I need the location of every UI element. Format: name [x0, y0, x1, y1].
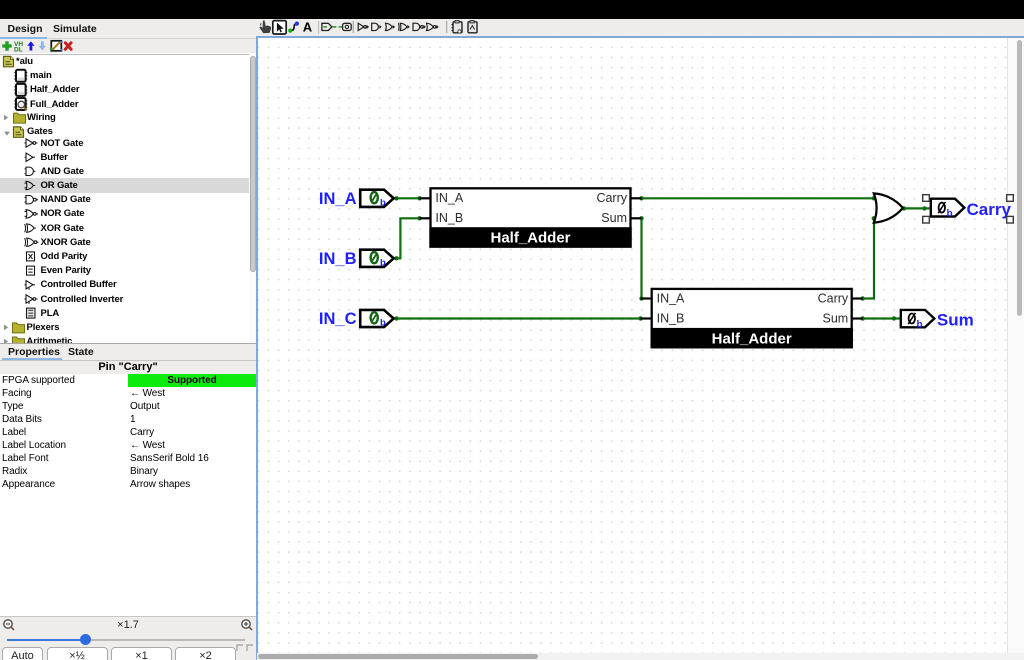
input pin tool — [322, 23, 337, 30]
svg-text:Carry: Carry — [967, 200, 1012, 219]
svg-text:IN_B: IN_B — [435, 211, 463, 225]
wire HA2 Carry up to OR gate input 2 — [863, 218, 874, 298]
wiring tool — [288, 22, 299, 33]
NOT gate tool — [358, 23, 368, 30]
circuit canvas — [258, 38, 1024, 660]
svg-text:IN_A: IN_A — [657, 292, 685, 306]
svg-text:A: A — [303, 20, 313, 35]
add vhdl icon — [468, 21, 477, 33]
svg-text:Sum: Sum — [822, 312, 848, 326]
svg-text:b: b — [380, 258, 386, 269]
label IN_B — [319, 250, 357, 268]
svg-text:Carry: Carry — [818, 292, 849, 306]
wire IN_A to HA1 — [394, 197, 420, 199]
zoom out icon — [2, 618, 16, 632]
label IN_A — [319, 190, 357, 208]
wire OR gate output to pin Carry — [903, 207, 930, 209]
NAND gate tool — [413, 23, 425, 30]
input pin IN_C — [360, 310, 393, 329]
add circuit icon — [452, 21, 463, 34]
svg-text:b: b — [380, 198, 386, 209]
svg-text:b: b — [917, 319, 923, 330]
zoom slider — [7, 639, 245, 641]
OR gate tool — [386, 23, 395, 30]
design tab label — [8, 23, 43, 36]
properties/state tabs row — [0, 343, 256, 361]
wire HA1 Sum down to HA2 IN_A — [641, 218, 642, 298]
wire IN_C to HA2 — [394, 317, 641, 319]
left project toolbar icons — [0, 39, 90, 53]
svg-text:IN_A: IN_A — [435, 191, 463, 205]
svg-text:IN_B: IN_B — [657, 312, 685, 326]
XOR gate tool — [398, 23, 409, 30]
output pin Sum — [901, 310, 935, 331]
NOR gate tool — [427, 23, 438, 30]
toolbar row background — [0, 19, 1024, 36]
circuit svg overlay — [257, 37, 1024, 653]
main canvas toolbar icons (SVG) — [255, 19, 755, 36]
svg-text:b: b — [380, 318, 386, 329]
input pin IN_B — [360, 250, 393, 269]
selected row highlight (OR Gate) — [0, 178, 249, 192]
canvas focus border — [256, 36, 1024, 38]
wire HA2 Sum to pin Sum — [863, 317, 900, 319]
selection handles for pin Carry — [923, 195, 1014, 223]
separator — [318, 21, 320, 34]
svg-text:IN_B: IN_B — [319, 250, 357, 268]
svg-text:DL: DL — [14, 47, 23, 54]
properties header — [0, 360, 256, 375]
explorer tree — [0, 54, 256, 345]
bottom zoom buttons — [0, 647, 256, 660]
zoom chrome — [0, 616, 256, 660]
wire IN_B to HA1 (bend) — [394, 218, 420, 258]
subcircuit Half_Adder U2 — [641, 289, 863, 348]
svg-text:Half_Adder: Half_Adder — [712, 330, 792, 347]
output pin tool — [339, 23, 352, 30]
wire junction dots — [394, 196, 926, 321]
wire HA1 Carry to OR gate input 1 — [642, 197, 874, 199]
properties table — [0, 374, 256, 617]
canvas vertical scrollbar — [1007, 38, 1024, 654]
output pin Carry (selected) — [931, 199, 965, 220]
svg-text:Carry: Carry — [596, 191, 627, 205]
subcircuit Half_Adder U1 — [420, 188, 642, 247]
design tab underline — [0, 37, 47, 39]
svg-text:b: b — [947, 209, 953, 220]
svg-text:Half_Adder: Half_Adder — [490, 230, 570, 247]
separator — [446, 21, 448, 33]
separator — [352, 21, 354, 33]
AND gate tool — [372, 23, 381, 30]
svg-text:IN_A: IN_A — [319, 190, 357, 208]
label Carry — [967, 200, 1012, 219]
or-gate U3 — [874, 193, 903, 222]
tree scrollbar — [249, 54, 256, 343]
svg-text:IN_C: IN_C — [319, 310, 357, 328]
input pin IN_A — [360, 190, 393, 209]
zoom in icon — [240, 618, 254, 632]
panel corner resize grip — [234, 642, 256, 654]
label Sum — [937, 311, 974, 330]
simulate tab label — [53, 23, 97, 36]
edit tool (selected, arrow) — [273, 21, 286, 34]
canvas horizontal scrollbar — [257, 653, 1024, 660]
poke tool (hand) — [259, 20, 271, 33]
text tool — [303, 20, 313, 35]
svg-text:Sum: Sum — [937, 311, 974, 330]
label IN_C — [319, 310, 357, 328]
top black title bar — [0, 0, 1024, 19]
svg-text:Sum: Sum — [601, 211, 627, 225]
